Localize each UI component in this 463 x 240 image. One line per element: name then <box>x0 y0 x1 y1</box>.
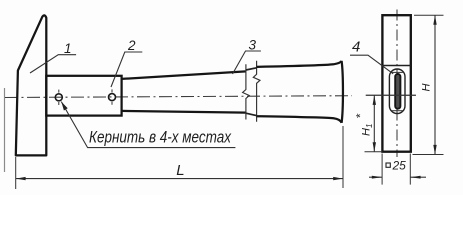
svg-text:H: H <box>420 84 432 92</box>
svg-text:3: 3 <box>249 37 257 52</box>
svg-text:L: L <box>176 162 184 179</box>
svg-text:2: 2 <box>127 38 136 53</box>
svg-text:25: 25 <box>392 159 407 173</box>
svg-text:1: 1 <box>64 41 72 56</box>
svg-text:4: 4 <box>352 38 360 55</box>
svg-text:Кернить в 4-х местах: Кернить в 4-х местах <box>89 128 231 147</box>
